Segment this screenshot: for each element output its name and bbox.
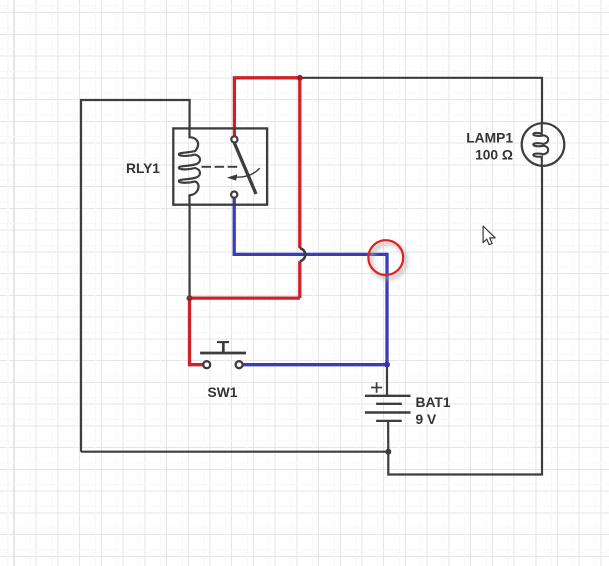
wire: lamp top to top junction (dark) [300,78,542,123]
node junction: battery negative / ground rail [385,449,391,455]
battery plus sign [371,387,382,389]
switch SW1 [200,342,246,400]
relay switch blade [234,143,256,194]
switch pin terminal left [203,361,210,368]
node junction: top red/dark net [297,75,303,81]
wire: battery negative lead (dark) [387,421,389,452]
wire: switch right terminal to blue junction (blue) [244,363,388,366]
wire: relay coil bottom to node A (dark) [189,205,191,298]
svg-text:BAT1: BAT1 [416,395,451,410]
relay pin terminal top [231,136,237,142]
switch pin terminal right [236,361,243,368]
relay RLY1 [126,128,267,204]
wire hop: red over blue crossover arc [300,248,305,261]
switch plunger stem [222,342,225,353]
lamp bulb circle [522,123,565,166]
battery plate short negative [376,420,402,422]
wire: battery negative junction to lamp bottom (dark) [388,166,542,475]
lamp LAMP1 [466,123,564,166]
annotation circle ring [368,240,403,275]
lamp filament coil [533,123,548,166]
wire: relay NO terminal to blue junction (blue) [234,198,387,364]
svg-text:9 V: 9 V [416,412,438,427]
relay body outline [173,128,267,204]
svg-text:RLY1: RLY1 [126,161,160,176]
wire: blue junction to battery positive (dark) [386,365,388,396]
wire: relay coil top to left rail (dark) [81,100,190,452]
node junction: blue net at battery positive [384,362,390,368]
relay actuation arrow [237,168,260,177]
wire: red run to switch left terminal via node A [190,298,300,365]
svg-text:SW1: SW1 [208,385,238,400]
relay pin terminal bottom [231,192,237,198]
wire: bottom rail to battery negative junction (dark) [81,451,388,453]
battery plate long [365,411,411,414]
wire: relay common terminal to top junction (red) [234,78,299,136]
switch bar [200,352,246,355]
cursor [483,226,495,245]
battery plate long positive [365,395,411,397]
node A junction: coil bottom / red net [187,295,193,301]
wire: red vertical below hop [298,261,301,298]
annotation highlight circle [368,240,405,278]
wire: top junction down, red vertical above hop [298,78,301,248]
annotation circle shadow [371,243,406,278]
battery BAT1 [365,382,451,427]
battery plate short [376,403,402,405]
relay actuation dashed link [202,166,239,168]
svg-text:LAMP1: LAMP1 [466,131,513,146]
relay coil [179,128,200,204]
svg-text:100 Ω: 100 Ω [475,148,513,163]
switch plunger cap [217,341,229,343]
